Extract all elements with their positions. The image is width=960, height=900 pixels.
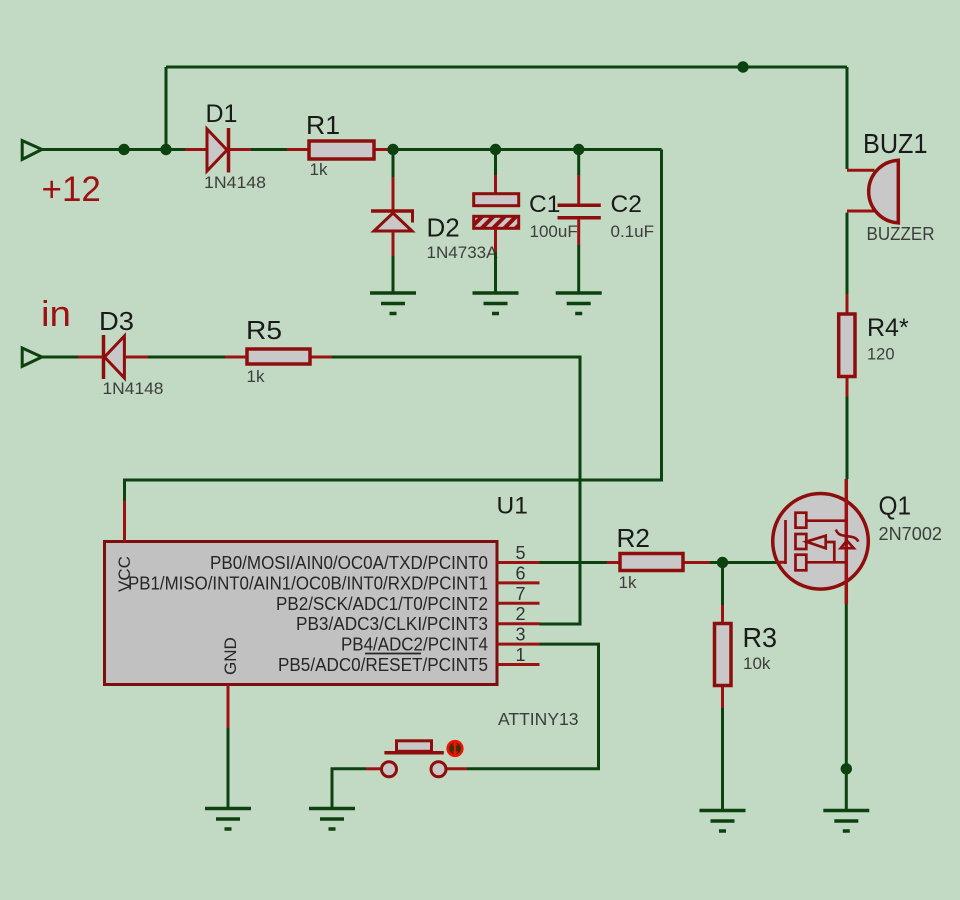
wire button to ground xyxy=(332,769,366,808)
pin VCC xyxy=(123,501,126,542)
svg-text:D2: D2 xyxy=(427,213,460,243)
diode D1 xyxy=(185,128,251,173)
wire R5 to U1 pin2 xyxy=(332,357,580,624)
junction xyxy=(160,144,171,155)
wire pin5 to R2 xyxy=(540,561,608,564)
svg-text:1k: 1k xyxy=(247,367,265,386)
wire D1 to R1 xyxy=(251,148,287,151)
svg-text:R2: R2 xyxy=(617,523,651,553)
terminal in xyxy=(22,348,42,366)
zener D2 xyxy=(371,152,414,293)
ground U1 xyxy=(205,809,251,830)
wire R1 to corner xyxy=(388,148,662,151)
svg-text:7: 7 xyxy=(515,584,525,604)
push button xyxy=(366,741,467,777)
ground Q1 xyxy=(823,811,869,832)
wire down to buzzer xyxy=(846,67,849,169)
wire R4 to Q1 drain xyxy=(846,397,849,480)
svg-text:PB3/ADC3/CLKI/PCINT3: PB3/ADC3/CLKI/PCINT3 xyxy=(296,614,488,634)
wire R2 to gate xyxy=(710,561,777,564)
svg-text:1N4733A: 1N4733A xyxy=(427,243,499,262)
pin 7 stub xyxy=(497,602,540,605)
wire U1 GND to ground xyxy=(227,728,230,808)
wire D3 to R5 xyxy=(148,356,225,359)
svg-text:C1: C1 xyxy=(529,191,560,218)
pin 1 stub xyxy=(497,663,540,666)
svg-text:R3: R3 xyxy=(743,622,778,653)
junction xyxy=(737,61,748,72)
svg-text:Q1: Q1 xyxy=(879,491,912,521)
wire to U1 VCC xyxy=(125,150,662,501)
junction xyxy=(118,144,129,155)
wire top rail xyxy=(166,66,847,69)
mosfet Q1 xyxy=(773,479,869,604)
svg-text:PB1/MISO/INT0/AIN1/OC0B/INT0/R: PB1/MISO/INT0/AIN1/OC0B/INT0/RXD/PCINT1 xyxy=(128,573,488,593)
svg-text:2: 2 xyxy=(515,604,525,624)
ground R3 xyxy=(700,811,746,832)
svg-text:0.1uF: 0.1uF xyxy=(611,222,654,241)
svg-text:U1: U1 xyxy=(497,493,528,520)
svg-text:6: 6 xyxy=(515,563,525,583)
svg-text:+12: +12 xyxy=(42,170,101,209)
diode D3 xyxy=(78,335,148,379)
resistor R2 xyxy=(607,554,710,571)
ground button xyxy=(309,809,355,830)
svg-text:R1: R1 xyxy=(306,110,340,140)
svg-text:PB4/ADC2/PCINT4: PB4/ADC2/PCINT4 xyxy=(341,635,488,655)
IC U1 ATTINY13 xyxy=(105,542,498,685)
ground C1 xyxy=(473,293,519,314)
svg-text:5: 5 xyxy=(515,543,525,563)
resistor R1 xyxy=(287,141,388,159)
svg-text:BUZZER: BUZZER xyxy=(867,224,935,244)
capacitor C2 xyxy=(558,152,601,293)
junction xyxy=(573,144,584,155)
svg-text:D1: D1 xyxy=(206,100,238,128)
wire to R3 xyxy=(721,563,724,606)
svg-text:BUZ1: BUZ1 xyxy=(863,128,928,159)
pin 2 stub xyxy=(497,622,540,625)
svg-text:3: 3 xyxy=(515,625,525,645)
wire Q1 source to ground xyxy=(845,604,848,811)
svg-text:D3: D3 xyxy=(99,306,134,336)
svg-text:in: in xyxy=(41,293,71,334)
wire buzzer to R4 xyxy=(846,213,849,294)
svg-text:PB2/SCK/ADC1/T0/PCINT2: PB2/SCK/ADC1/T0/PCINT2 xyxy=(276,594,488,614)
wire +12 rail xyxy=(42,148,185,151)
overline RESET xyxy=(365,653,421,655)
resistor R3 xyxy=(715,605,732,708)
wire pin3 to button xyxy=(467,644,599,769)
capacitor C1 xyxy=(474,152,519,293)
svg-text:PB0/MOSI/AIN0/OC0A/TXD/PCINT0: PB0/MOSI/AIN0/OC0A/TXD/PCINT0 xyxy=(210,553,488,573)
ground D2 xyxy=(370,293,416,314)
svg-text:1k: 1k xyxy=(310,160,328,179)
svg-text:R5: R5 xyxy=(246,315,282,345)
terminal +12 input xyxy=(22,141,42,160)
resistor R5 xyxy=(225,349,332,364)
svg-text:PB5/ADC0/RESET/PCINT5: PB5/ADC0/RESET/PCINT5 xyxy=(278,655,488,675)
pin 5 stub xyxy=(497,561,540,564)
svg-text:1N4148: 1N4148 xyxy=(204,173,266,192)
resistor R4 xyxy=(839,294,855,397)
wire in xyxy=(42,356,78,359)
junction xyxy=(490,144,501,155)
ground C2 xyxy=(556,293,602,314)
wire R3 to ground xyxy=(721,708,724,811)
svg-text:100uF: 100uF xyxy=(530,222,578,241)
svg-text:120: 120 xyxy=(867,346,895,364)
pin GND xyxy=(227,685,230,729)
junction xyxy=(387,144,398,155)
svg-text:ATTINY13: ATTINY13 xyxy=(498,709,579,729)
pin 3 stub xyxy=(497,643,540,646)
svg-text:1N4148: 1N4148 xyxy=(103,379,164,398)
svg-text:C2: C2 xyxy=(611,191,642,218)
buzzer BUZ1 xyxy=(847,160,898,223)
svg-text:1: 1 xyxy=(515,645,525,665)
pin 6 stub xyxy=(497,581,540,584)
svg-text:10k: 10k xyxy=(743,654,771,673)
wire up from +12 rail xyxy=(165,67,168,150)
junction xyxy=(717,557,728,568)
svg-text:1k: 1k xyxy=(619,573,637,592)
junction xyxy=(841,763,852,774)
svg-text:R4*: R4* xyxy=(867,314,909,342)
svg-text:GND: GND xyxy=(221,637,240,675)
svg-text:2N7002: 2N7002 xyxy=(879,524,943,544)
